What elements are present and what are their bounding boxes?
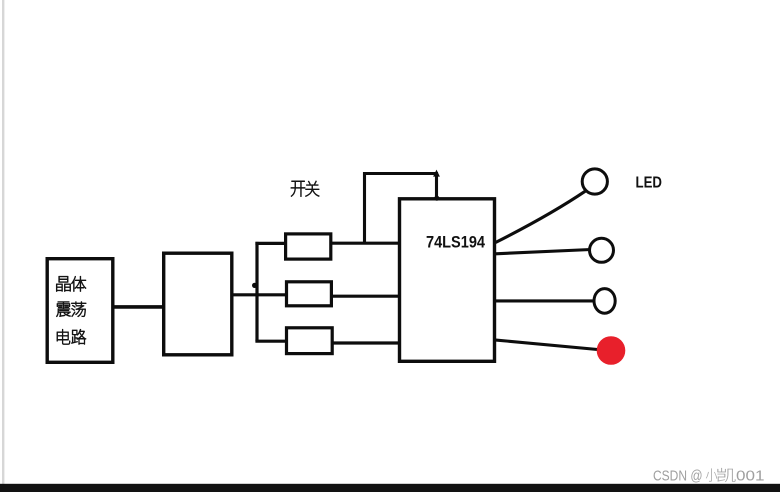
wire: U1 to LED D1 bbox=[496, 191, 586, 243]
svg-text:LED: LED bbox=[636, 175, 663, 192]
switch S3 bbox=[287, 328, 333, 354]
wire: U1 to LED D3 bbox=[494, 299, 595, 302]
LED D4 (lit, red) bbox=[597, 336, 626, 365]
LED D1 bbox=[582, 169, 607, 194]
wire: S1 to U1 bbox=[331, 242, 400, 245]
wire: U1 to LED D4 bbox=[495, 340, 598, 350]
label: 晶体震荡电路 (crystal oscillator circuit) bbox=[56, 276, 86, 344]
wire: box2 to switch S2 (through bus) bbox=[232, 293, 288, 296]
switch S1 bbox=[286, 234, 331, 259]
wire: bus to switch S1 bbox=[255, 242, 287, 245]
LED D2 bbox=[590, 238, 614, 262]
watermark: CSDN @小凯001 bbox=[653, 468, 765, 485]
svg-text:74LS194: 74LS194 bbox=[426, 234, 486, 252]
IC U1: 74LS194 bbox=[400, 199, 495, 361]
wire: S2 to U1 bbox=[331, 295, 399, 298]
wire: box1 to box2 bbox=[113, 305, 164, 309]
wire: switch input bus (vertical) bbox=[255, 242, 258, 342]
node: junction at U1 top edge bbox=[434, 196, 439, 201]
svg-text:001: 001 bbox=[736, 469, 765, 485]
svg-text:CSDN @: CSDN @ bbox=[653, 469, 703, 485]
wire: U1 to LED D2 bbox=[496, 250, 591, 254]
arrowhead on clock wire (pointing up) bbox=[433, 170, 440, 177]
wire: bus to switch S3 bbox=[255, 340, 288, 343]
label: 开关 (switch) bbox=[291, 181, 319, 197]
switch S2 bbox=[287, 282, 332, 306]
LED D3 bbox=[594, 289, 615, 314]
wire: clock feedback loop bbox=[365, 174, 437, 244]
node: junction dot on bus bbox=[252, 283, 257, 288]
block: crystal oscillator circuit box bbox=[47, 259, 113, 363]
wire: S3 to U1 bbox=[332, 341, 401, 344]
block: frequency divider box bbox=[164, 253, 232, 355]
